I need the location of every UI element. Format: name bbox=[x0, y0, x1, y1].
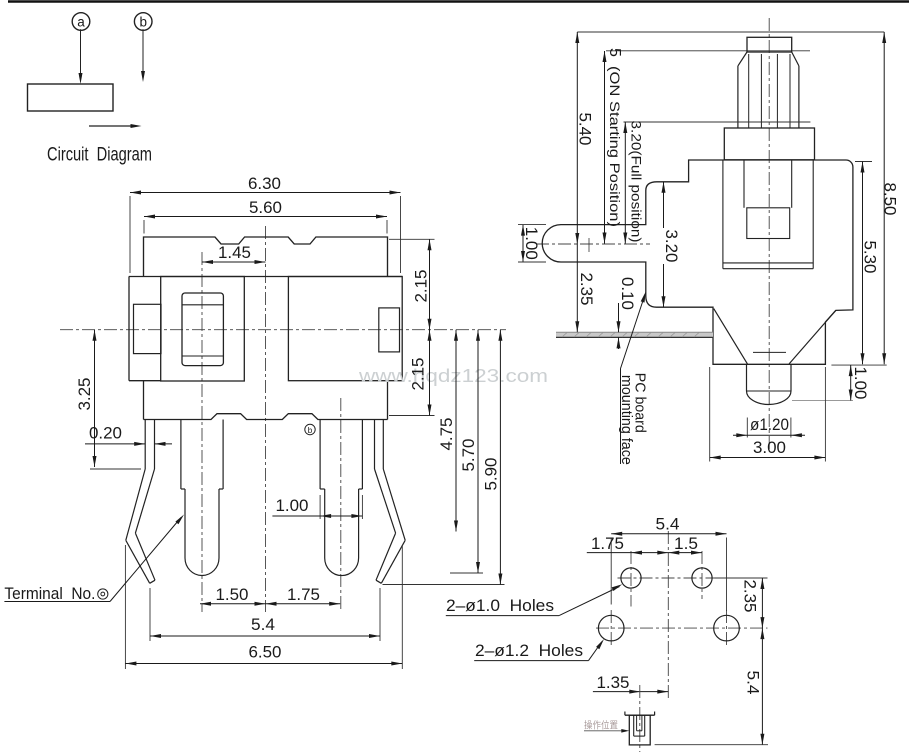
dimension 1.00 pin length bbox=[792, 365, 887, 400]
inner cavity outline bbox=[723, 161, 813, 269]
svg-text:4.75: 4.75 bbox=[438, 418, 456, 451]
svg-text:5.4: 5.4 bbox=[744, 671, 762, 695]
label 2-dia-1.0 holes with leader bbox=[446, 584, 623, 615]
pcb dimension 2.35 vertical bbox=[715, 578, 768, 628]
circuit diagram terminal b symbol bbox=[134, 13, 152, 31]
front view right block tab window bbox=[379, 308, 400, 352]
actuation direction arrow bbox=[89, 124, 142, 128]
right bent mounting leg bbox=[375, 420, 406, 584]
contact box inside body bbox=[747, 208, 790, 239]
side view body outline bbox=[542, 160, 853, 364]
svg-text:a: a bbox=[77, 15, 85, 30]
dimension 6.50 overall leg span bbox=[125, 545, 402, 669]
svg-text:www.hqdz123.com: www.hqdz123.com bbox=[358, 365, 548, 386]
dimension 3.00 pin base width bbox=[710, 367, 826, 462]
front view left side tab window bbox=[134, 304, 162, 353]
funnel chord line bbox=[753, 351, 786, 353]
dimension 3.25 bbox=[76, 330, 141, 469]
switch contact rectangle bbox=[28, 84, 114, 111]
svg-text:5.40: 5.40 bbox=[576, 113, 594, 146]
front view horizontal centerline bbox=[60, 329, 506, 331]
svg-text:5.90: 5.90 bbox=[483, 458, 501, 491]
front view left block bbox=[161, 277, 245, 382]
svg-text:5.4: 5.4 bbox=[251, 616, 275, 634]
svg-text:1.35: 1.35 bbox=[597, 674, 630, 692]
svg-text:2–ø1.0 Holes: 2–ø1.0 Holes bbox=[446, 597, 554, 615]
dimension 5.40 free position height bbox=[575, 32, 593, 244]
svg-text:2.35: 2.35 bbox=[741, 580, 759, 613]
bottom center pin bbox=[747, 364, 792, 404]
hole A (1.0 mm) bbox=[621, 568, 641, 588]
terminal 1 pin (left) outline bbox=[181, 420, 223, 576]
svg-text:1.00: 1.00 bbox=[276, 497, 309, 515]
wire from terminal b with arrow bbox=[141, 29, 145, 82]
plunger cap bbox=[747, 37, 792, 52]
svg-text:5.4: 5.4 bbox=[656, 516, 680, 534]
operating position icon (switch footprint) bbox=[625, 712, 655, 745]
svg-text:b: b bbox=[308, 426, 313, 435]
svg-text:1.75: 1.75 bbox=[591, 535, 624, 553]
svg-text:6.50: 6.50 bbox=[249, 644, 282, 662]
svg-text:3.00: 3.00 bbox=[753, 439, 786, 457]
pcb dimension 5.4 vertical bbox=[744, 628, 765, 745]
front view vertical centerline (left window / terminal 1) bbox=[201, 252, 203, 612]
svg-text:3.20(Full position): 3.20(Full position) bbox=[629, 121, 644, 243]
svg-text:1.00: 1.00 bbox=[522, 227, 540, 260]
dimension 1.50 pin to center bbox=[200, 586, 266, 606]
svg-text:5.70: 5.70 bbox=[460, 439, 478, 472]
pcb view hole row 1 horizontal centerline bbox=[618, 577, 715, 579]
svg-text:1.5: 1.5 bbox=[674, 535, 698, 553]
svg-text:3.20: 3.20 bbox=[662, 230, 680, 263]
full position reference line bbox=[624, 121, 811, 123]
top border line bbox=[8, 0, 909, 2]
dimension 2.35 tab center to board bbox=[575, 244, 595, 332]
svg-text:0.20: 0.20 bbox=[89, 425, 122, 443]
side view tab center tick bbox=[588, 238, 590, 252]
leader line to PC board mounting face label bbox=[621, 292, 646, 465]
svg-text:0.10: 0.10 bbox=[618, 277, 636, 310]
operating position icon centerline bbox=[639, 685, 641, 752]
plunger stem inside body bbox=[744, 160, 792, 208]
label 2-dia-1.2 holes with leader bbox=[474, 639, 604, 661]
dimension 5 ON starting position bbox=[603, 48, 624, 243]
circuit diagram terminal a symbol bbox=[72, 13, 90, 31]
terminal 2 pin (right) outline bbox=[320, 420, 362, 576]
dimension 3.20 full position bbox=[623, 121, 643, 244]
svg-text:mounting face: mounting face bbox=[618, 375, 635, 465]
wire from terminal a with arrow into switch body bbox=[79, 29, 83, 84]
circled b marker on bottom plate bbox=[305, 424, 315, 435]
dimension diameter 1.20 pin bbox=[733, 416, 805, 438]
pcb dimension 5.4 horizontal bbox=[611, 516, 726, 612]
dimension 0.10 board clearance bbox=[617, 277, 637, 349]
svg-text:2.15: 2.15 bbox=[410, 358, 428, 391]
pcb view hole C vertical centerline bbox=[610, 610, 612, 647]
plunger free position line bbox=[606, 50, 810, 52]
plunger top reference line bbox=[577, 31, 884, 33]
svg-text:5: 5 bbox=[606, 48, 623, 57]
hole B (1.0 mm) bbox=[692, 568, 712, 588]
dimension 2.15 upper bbox=[389, 239, 435, 329]
dimension 8.50 overall height bbox=[881, 32, 899, 364]
front view body top edge line bbox=[129, 276, 402, 278]
front view top plate with two notches bbox=[144, 237, 388, 277]
pcb dimension 1.35 bbox=[593, 674, 668, 694]
front view left side tab bbox=[129, 277, 161, 381]
pcb dimension 1.5 bbox=[668, 535, 702, 555]
dimension 1.00 side tab height bbox=[518, 225, 546, 262]
left bent mounting leg bbox=[126, 420, 155, 584]
side view vertical centerline bbox=[768, 18, 770, 450]
front view left window upper band line bbox=[182, 304, 223, 306]
front view vertical centerline (main axis) bbox=[265, 226, 267, 612]
svg-text:5.30: 5.30 bbox=[861, 241, 879, 274]
svg-text:2.35: 2.35 bbox=[577, 273, 595, 306]
front view vertical centerline (terminal 2) bbox=[340, 398, 342, 612]
svg-text:Circuit Diagram: Circuit Diagram bbox=[47, 145, 152, 166]
body funnel left diagonal bbox=[714, 309, 748, 364]
label Terminal No. with circled-a and leader arrow bbox=[4, 515, 184, 604]
dimension 0.20 leg thickness bbox=[85, 425, 172, 446]
hole C (1.2 mm) bbox=[598, 615, 624, 641]
svg-text:ø1.20: ø1.20 bbox=[750, 416, 789, 434]
svg-text:1.50: 1.50 bbox=[216, 586, 249, 604]
pcb view main vertical centerline bbox=[667, 531, 669, 701]
dimension 5.60 plate width bbox=[144, 199, 387, 234]
svg-text:8.50: 8.50 bbox=[881, 183, 899, 216]
pcb view hole row 2 horizontal centerline bbox=[596, 627, 768, 629]
operating face reference line bbox=[655, 744, 768, 746]
front view right block bbox=[288, 277, 402, 381]
svg-text:操作位置: 操作位置 bbox=[584, 720, 618, 732]
svg-text:b: b bbox=[139, 15, 147, 30]
svg-text:1.75: 1.75 bbox=[287, 586, 320, 604]
pcb view hole D vertical centerline bbox=[726, 610, 728, 647]
dimension 1.45 window offset bbox=[202, 244, 266, 264]
svg-text:1.45: 1.45 bbox=[218, 244, 251, 262]
hole D (1.2 mm) bbox=[714, 615, 740, 641]
side view tab horizontal centerline bbox=[536, 243, 650, 245]
svg-text:1.00: 1.00 bbox=[851, 367, 869, 400]
dimension 1.75 center to pin bbox=[266, 586, 341, 606]
svg-text:Terminal No.: Terminal No. bbox=[4, 585, 95, 603]
svg-text:3.25: 3.25 bbox=[76, 378, 94, 411]
label cao zuo wei zhi (operating position) bbox=[584, 720, 629, 733]
dimension 5.4 leg tip span bbox=[150, 588, 380, 641]
svg-text:(ON Starting Position): (ON Starting Position) bbox=[607, 66, 622, 227]
pcb view hole A vertical centerline bbox=[630, 551, 632, 607]
PC board cross-section band bbox=[556, 332, 713, 337]
dimension 5.30 body height bbox=[855, 162, 879, 365]
body funnel right diagonal bbox=[789, 310, 836, 364]
dimension 3.20 wing to mounting ledge bbox=[658, 182, 680, 307]
front view bottom plate with two notches bbox=[144, 381, 388, 420]
plunger flange block bbox=[724, 128, 814, 160]
svg-text:2–ø1.2 Holes: 2–ø1.2 Holes bbox=[475, 642, 583, 660]
pcb dimension 1.75 bbox=[587, 535, 702, 555]
dimension 4.75 bbox=[438, 330, 458, 532]
dimension 1.00 pin width bbox=[272, 495, 362, 519]
front view left block window frame bbox=[182, 293, 223, 366]
svg-text:6.30: 6.30 bbox=[248, 175, 281, 193]
svg-text:5.60: 5.60 bbox=[249, 199, 282, 217]
dimension 6.30 overall width bbox=[130, 175, 401, 273]
pcb view hole B vertical centerline bbox=[701, 551, 703, 599]
dimension 5.90 bbox=[383, 330, 505, 585]
svg-text:2.15: 2.15 bbox=[413, 270, 431, 303]
plunger shaft with chamfers and ribs bbox=[738, 52, 799, 128]
front view left window lower band line bbox=[182, 355, 223, 357]
dimension 5.70 bbox=[450, 330, 483, 573]
dimension 2.15 lower bbox=[389, 330, 435, 416]
